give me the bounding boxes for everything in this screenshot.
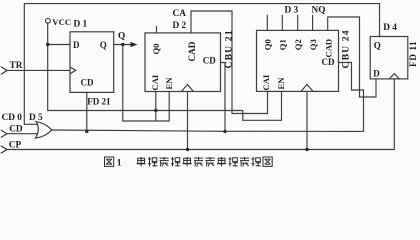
svg-text:Q: Q <box>374 40 381 50</box>
svg-text:D 5: D 5 <box>29 113 43 123</box>
wire CD input line <box>7 133 38 135</box>
svg-text:CP: CP <box>9 141 22 151</box>
svg-text:Q0: Q0 <box>263 39 273 50</box>
wire D3 Q3 stub <box>312 15 314 30</box>
svg-text:D: D <box>73 40 80 50</box>
svg-text:CAI: CAI <box>150 74 160 90</box>
input chevron CD <box>1 130 7 137</box>
clock triangle D3 <box>301 84 313 91</box>
wire NQ from D3 CAD to D4 D input <box>328 17 376 97</box>
clock triangle D1 <box>70 67 76 74</box>
wire feedback top from D4 Q to OR gate D5 input <box>24 4 379 125</box>
svg-text:Q2: Q2 <box>293 39 303 50</box>
wire D3 Q2 stub <box>297 15 299 30</box>
svg-text:EN: EN <box>164 77 174 90</box>
node junction D1 Q <box>121 43 124 46</box>
wire TR input line <box>7 69 70 71</box>
flip-flop D4 box FD11 <box>370 37 408 79</box>
svg-text:Q1: Q1 <box>278 39 288 50</box>
input chevron CP <box>1 146 7 153</box>
node junction VCC to D1 D <box>46 43 49 46</box>
wire D1 Q output with arrow <box>114 44 135 46</box>
node junction CAI on H1 <box>154 109 157 112</box>
wire D3 Q0 stub <box>266 15 268 30</box>
svg-text:VCC: VCC <box>52 17 71 27</box>
node junction D3 clock on CP <box>305 148 308 151</box>
svg-text:Q3: Q3 <box>308 39 318 50</box>
terminal VCC circle <box>46 18 51 23</box>
svg-text:CD: CD <box>203 56 216 66</box>
svg-text:D 2: D 2 <box>173 21 187 31</box>
wire D2 CD to clear bus <box>221 63 226 132</box>
wire D1 Q drop to D2 EN row <box>123 45 169 122</box>
wire D2 clock drop to CP <box>187 92 189 150</box>
node junction D1 CD on clear bus <box>85 130 88 133</box>
clock triangle D4 <box>389 74 399 79</box>
svg-text:CD 0: CD 0 <box>2 113 23 123</box>
svg-text:FD 11: FD 11 <box>409 41 419 67</box>
wire D3 clock drop to CP <box>306 91 308 149</box>
wire D2 CAD carry to D3 CAI <box>191 11 268 114</box>
svg-text:Q0: Q0 <box>151 44 161 55</box>
svg-text:Q: Q <box>118 32 125 42</box>
caption figure title pseudo glyphs <box>105 157 273 168</box>
wire CP input line <box>7 79 394 150</box>
svg-text:EN: EN <box>276 77 286 90</box>
svg-text:TR: TR <box>10 61 23 71</box>
wire D2 CAI riser <box>155 92 157 122</box>
svg-text:CD: CD <box>81 78 94 88</box>
svg-text:CA: CA <box>173 9 187 19</box>
svg-text:D: D <box>373 69 380 79</box>
node junction D2 clock on CP <box>186 148 189 151</box>
svg-text:CAD: CAD <box>323 39 333 58</box>
svg-text:1: 1 <box>117 158 122 168</box>
svg-text:CD: CD <box>9 124 23 134</box>
svg-text:D 3: D 3 <box>285 6 299 16</box>
svg-text:D 4: D 4 <box>383 23 397 33</box>
svg-text:CBU 21: CBU 21 <box>224 29 235 68</box>
svg-text:D 1: D 1 <box>74 19 88 29</box>
svg-text:CBU 24: CBU 24 <box>340 29 351 68</box>
wire D1 CD drop to clear bus <box>86 92 88 131</box>
arrow on D1 Q output <box>131 42 138 48</box>
svg-text:FD 21: FD 21 <box>87 97 111 107</box>
wire VCC to D1 D input <box>48 44 70 46</box>
or-gate D5 <box>35 122 51 139</box>
clock triangle D2 <box>182 85 194 92</box>
svg-text:CAI: CAI <box>261 74 271 90</box>
counter D2 box CBU21 <box>145 33 221 92</box>
node junction D2 CD on clear bus <box>223 130 226 133</box>
counter D3 box CBU24 <box>257 30 339 91</box>
svg-text:NQ: NQ <box>312 6 326 16</box>
svg-text:Q: Q <box>100 40 107 50</box>
input chevron TR <box>1 67 7 74</box>
wire VCC stem and H1 rail to D3 EN <box>48 23 282 120</box>
flip-flop D1 box FD21 <box>70 32 114 93</box>
wire D3 Q1 stub <box>281 15 283 30</box>
wire D2 Q0 stub <box>156 27 158 33</box>
wire clear bus H3 from OR output to D3 CD <box>51 63 364 132</box>
svg-text:CAD: CAD <box>187 41 197 61</box>
